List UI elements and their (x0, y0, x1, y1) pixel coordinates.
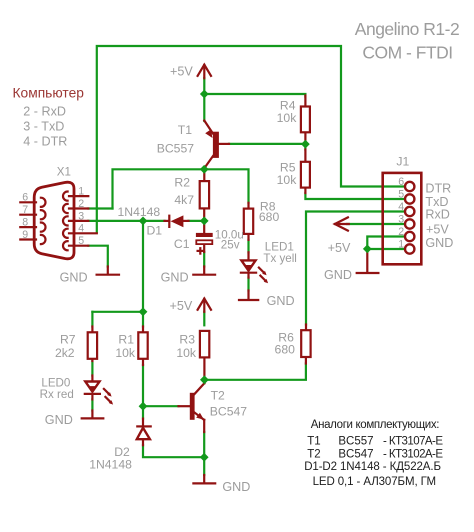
svg-text:T2: T2 (307, 448, 320, 460)
svg-text:4 - DTR: 4 - DTR (23, 135, 67, 149)
svg-text:4: 4 (78, 223, 84, 235)
svg-text:T1: T1 (178, 123, 192, 137)
svg-text:- КТ3102А-Е: - КТ3102А-Е (383, 448, 443, 460)
svg-text:LED 0,1 - АЛ307БМ, ГМ: LED 0,1 - АЛ307БМ, ГМ (313, 476, 436, 488)
svg-text:7: 7 (22, 204, 28, 216)
svg-text:3: 3 (398, 214, 404, 226)
svg-text:RxD: RxD (425, 207, 450, 221)
svg-text:1: 1 (398, 239, 404, 251)
svg-text:R3: R3 (179, 333, 195, 347)
svg-text:COM - FTDI: COM - FTDI (362, 43, 452, 63)
svg-text:8: 8 (22, 217, 28, 229)
svg-text:Компьютер: Компьютер (13, 86, 85, 101)
svg-text:2k2: 2k2 (55, 346, 75, 360)
svg-text:Angelino R1-2: Angelino R1-2 (355, 19, 459, 39)
svg-text:9: 9 (22, 229, 28, 241)
svg-text:6: 6 (22, 192, 28, 204)
svg-text:10k: 10k (115, 346, 136, 360)
svg-text:X1: X1 (57, 166, 71, 179)
svg-text:- КТ3107А-Е: - КТ3107А-Е (383, 435, 443, 447)
svg-text:R2: R2 (174, 176, 190, 190)
svg-text:Tx yell: Tx yell (263, 252, 297, 265)
svg-text:BC547: BC547 (338, 448, 373, 460)
svg-text:1: 1 (78, 186, 84, 198)
svg-text:Rx red: Rx red (40, 388, 74, 401)
svg-text:GND: GND (324, 268, 352, 282)
svg-text:GND: GND (60, 270, 88, 284)
svg-text:10k: 10k (277, 111, 298, 125)
svg-text:T1: T1 (307, 435, 320, 447)
svg-text:3 - TxD: 3 - TxD (23, 119, 64, 133)
svg-text:4k7: 4k7 (174, 193, 194, 207)
svg-text:2: 2 (398, 226, 404, 238)
svg-text:BC557: BC557 (157, 141, 194, 155)
svg-text:D1-D2 1N4148 - КД522А.Б: D1-D2 1N4148 - КД522А.Б (304, 461, 441, 473)
svg-text:GND: GND (161, 270, 189, 284)
svg-text:1N4148: 1N4148 (89, 457, 132, 471)
svg-text:3: 3 (78, 210, 84, 222)
svg-text:GND: GND (222, 480, 250, 494)
svg-text:GND: GND (425, 236, 453, 250)
svg-text:GND: GND (45, 413, 73, 427)
svg-text:J1: J1 (396, 154, 409, 168)
svg-text:+5V: +5V (328, 241, 351, 255)
svg-text:R1: R1 (118, 333, 134, 347)
svg-text:BC547: BC547 (210, 405, 247, 419)
svg-text:BC557: BC557 (338, 435, 373, 447)
svg-text:10k: 10k (176, 346, 197, 360)
svg-text:1N4148: 1N4148 (118, 205, 161, 219)
svg-text:+5V: +5V (170, 299, 193, 313)
svg-text:T2: T2 (211, 389, 225, 403)
svg-text:+5V: +5V (426, 223, 449, 237)
svg-text:6: 6 (398, 176, 404, 188)
svg-text:C1: C1 (174, 237, 190, 251)
svg-text:5: 5 (398, 189, 404, 201)
svg-text:D1: D1 (147, 223, 163, 237)
svg-text:680: 680 (259, 210, 280, 224)
svg-text:GND: GND (267, 294, 295, 308)
svg-text:4: 4 (398, 201, 404, 213)
svg-text:Аналоги комплектующих:: Аналоги комплектующих: (311, 419, 439, 431)
svg-text:25v: 25v (221, 238, 240, 251)
svg-text:R7: R7 (60, 333, 76, 347)
svg-text:5: 5 (78, 235, 84, 247)
svg-text:10k: 10k (277, 173, 298, 187)
svg-text:2 - RxD: 2 - RxD (23, 104, 66, 118)
svg-text:+5V: +5V (170, 65, 193, 79)
svg-text:680: 680 (275, 342, 296, 356)
svg-text:DTR: DTR (425, 182, 451, 196)
svg-text:2: 2 (78, 198, 84, 210)
